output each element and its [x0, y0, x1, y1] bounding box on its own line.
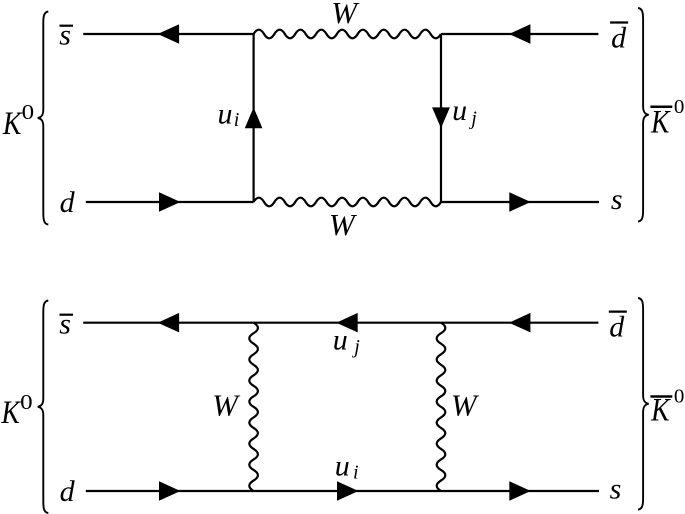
W boson: bottom horizontal wavy propagator — [254, 198, 441, 207]
arrow: u_j pointing left (bottom diagram upper line, middle) — [336, 313, 357, 333]
W boson: right vertical wavy propagator (bottom diagram) — [437, 323, 446, 491]
svg-text:W: W — [331, 0, 360, 30]
arrow: s pointing right (bottom diagram lower line, right) — [509, 481, 530, 501]
svg-text:0: 0 — [674, 386, 685, 408]
arrow: u_j propagator, pointing down — [432, 107, 450, 128]
wire: bottom diagram, d/u_i lower fermion line — [86, 490, 599, 492]
arrow: u_i pointing right (bottom diagram lower line, middle) — [337, 481, 358, 501]
quark line u_i: left vertical propagator, top diagram — [253, 34, 255, 202]
svg-text:K: K — [1, 395, 22, 431]
svg-text:i: i — [234, 109, 240, 131]
arrow: sbar pointing left (bottom diagram upper line, left) — [158, 313, 179, 333]
arrow: dbar line, pointing left (top diagram upper-right) — [509, 24, 530, 44]
svg-text:K: K — [2, 106, 23, 142]
arrow: d line, pointing right (top diagram lower-left) — [159, 192, 180, 212]
svg-text:W: W — [329, 207, 358, 242]
brace: right curly brace grouping K0bar (top diagram) — [638, 8, 649, 222]
brace: right curly brace grouping K0bar (bottom diagram) — [638, 298, 649, 510]
svg-text:s: s — [610, 473, 622, 506]
wire: top diagram, dbar incoming segment (upper right) — [441, 33, 598, 35]
wire: bottom diagram, sbar/u_j upper fermion line — [83, 322, 598, 324]
arrow: u_i propagator, pointing up — [245, 107, 263, 128]
wire: top diagram, sbar incoming segment (upper left) — [83, 33, 253, 35]
svg-text:0: 0 — [674, 96, 685, 118]
wire: top diagram, s outgoing segment (lower right) — [441, 201, 599, 203]
W boson: left vertical wavy propagator (bottom diagram) — [249, 323, 258, 491]
svg-text:u: u — [218, 98, 233, 131]
svg-text:d: d — [60, 186, 76, 219]
svg-text:s: s — [611, 183, 623, 216]
arrow: d pointing right (bottom diagram lower line, left) — [159, 481, 180, 501]
svg-text:u: u — [333, 323, 348, 356]
svg-text:s: s — [59, 18, 71, 51]
brace: left curly brace grouping K0 (top diagram) — [38, 12, 49, 225]
arrow: s line, pointing right (top diagram lower-right) — [509, 192, 530, 212]
quark line u_j: right vertical propagator, top diagram — [440, 34, 442, 202]
svg-text:W: W — [451, 387, 480, 422]
svg-text:s: s — [59, 307, 71, 340]
W boson: top horizontal wavy propagator — [254, 30, 441, 39]
svg-text:u: u — [335, 449, 350, 482]
wire: top diagram, d incoming segment (lower left) — [86, 201, 254, 203]
svg-text:d: d — [609, 311, 625, 344]
svg-text:u: u — [452, 94, 467, 127]
svg-text:W: W — [212, 387, 241, 422]
svg-text:i: i — [353, 461, 359, 483]
svg-text:K: K — [650, 104, 671, 140]
svg-text:d: d — [611, 21, 627, 54]
svg-text:K: K — [650, 393, 671, 429]
svg-text:0: 0 — [20, 390, 32, 414]
arrow: dbar pointing left (bottom diagram upper line, right) — [509, 313, 530, 333]
svg-text:d: d — [60, 475, 76, 508]
brace: left curly brace grouping K0 (bottom diagram) — [38, 301, 49, 514]
arrow: sbar line, pointing left (top diagram upper-left) — [158, 24, 179, 44]
svg-text:0: 0 — [22, 100, 34, 124]
